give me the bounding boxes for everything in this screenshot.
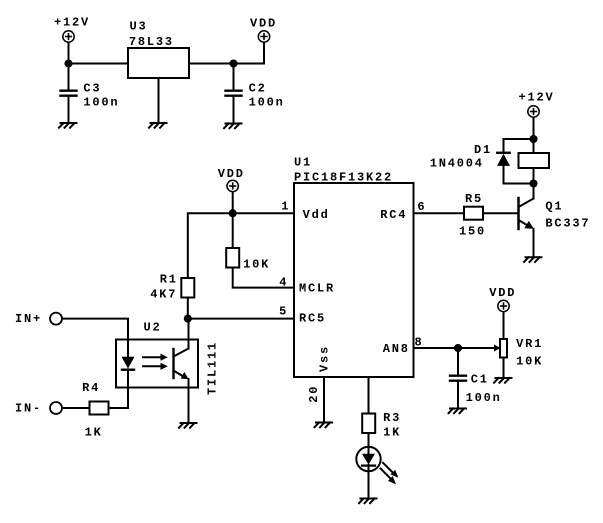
svg-text:VDD: VDD — [218, 167, 245, 181]
svg-text:VDD: VDD — [489, 286, 516, 300]
wire R1 bottom to RC5 junction — [187, 298, 189, 319]
svg-text:10K: 10K — [516, 355, 543, 369]
svg-text:U2: U2 — [144, 321, 162, 335]
wire U1 pin 6 RC4 to R5 — [414, 212, 465, 214]
resistor R1 — [181, 278, 194, 298]
LED indicator — [356, 447, 380, 471]
microcontroller U1 — [294, 183, 414, 377]
node junction R1 / opto collector / RC5 — [184, 315, 192, 323]
svg-text:4K7: 4K7 — [150, 287, 177, 301]
svg-text:+12V: +12V — [54, 15, 90, 29]
wire opto emitter down to ground — [188, 379, 190, 423]
resistor 10K (MCLR pull-up) — [226, 248, 239, 268]
wire VDD junction down to 10K resistor — [232, 213, 234, 248]
svg-text:AN8: AN8 — [383, 342, 410, 356]
ground (below C2) — [224, 124, 242, 129]
wire Q1 emitter down to ground — [533, 229, 535, 257]
wire D1 top branch — [504, 139, 534, 153]
svg-text:C2: C2 — [249, 82, 267, 96]
svg-text:20: 20 — [307, 385, 321, 403]
svg-text:U3: U3 — [130, 20, 148, 34]
ground (below LED) — [359, 499, 377, 504]
LED emission arrow (upper) — [383, 463, 399, 478]
ground (Q1 emitter) — [524, 257, 542, 262]
capacitor C1 — [450, 376, 466, 381]
wire junction to VDD terminal corner — [234, 43, 265, 64]
svg-text:10K: 10K — [243, 258, 270, 272]
VDD terminal (above U1) — [227, 180, 238, 191]
wire U1 pin 20 Vss to ground — [323, 377, 325, 422]
wire relay top to +12V junction — [533, 139, 535, 153]
svg-text:1K: 1K — [85, 425, 103, 439]
wire junction to VR1 wiper arrow — [458, 344, 500, 351]
voltage regulator U3 — [128, 48, 189, 78]
svg-text:VDD: VDD — [250, 17, 277, 31]
ground (VR1 bottom) — [494, 378, 512, 383]
svg-text:R3: R3 — [383, 411, 401, 425]
svg-text:Q1: Q1 — [545, 200, 563, 214]
ground (below U3) — [149, 123, 167, 128]
wire +12V terminal to junction — [68, 43, 70, 64]
svg-text:IN+: IN+ — [15, 312, 42, 326]
svg-text:Vss: Vss — [317, 345, 331, 372]
U2 coupling arrow (upper) — [143, 354, 168, 361]
wire C3 to ground — [68, 97, 70, 123]
VDD terminal (right) — [498, 300, 509, 311]
wire U1 pin 8 AN8 to junction — [414, 347, 459, 349]
node junction AN8 / C1 / VR1 wiper — [454, 344, 462, 352]
wire U1 bottom pin to R3 — [368, 377, 370, 414]
svg-text:100n: 100n — [466, 391, 502, 405]
wire C2 to ground — [233, 97, 235, 124]
node junction +12V rail / C3 — [64, 59, 72, 67]
wire C1 to ground — [457, 382, 459, 409]
ground (below C1) — [449, 409, 467, 414]
ground (Vss pin 20) — [315, 423, 333, 428]
svg-text:1K: 1K — [383, 426, 401, 440]
transistor Q1 — [519, 198, 534, 229]
capacitor C3 — [61, 91, 77, 96]
svg-text:MCLR: MCLR — [299, 282, 335, 296]
svg-text:78L33: 78L33 — [129, 35, 174, 49]
wire R3 to LED — [368, 433, 370, 455]
svg-text:R4: R4 — [82, 381, 100, 395]
svg-text:100n: 100n — [83, 96, 119, 110]
svg-text:PIC18F13K22: PIC18F13K22 — [294, 171, 393, 185]
svg-text:1N4004: 1N4004 — [430, 157, 484, 171]
resistor R4 — [90, 402, 109, 415]
optocoupler U2 — [116, 340, 198, 388]
wire VR1 bottom to ground — [503, 358, 505, 378]
resistor R5 — [464, 207, 483, 220]
wire pin-1 rail (R1 top corner to U1 pin 1) — [188, 213, 294, 278]
wire IN+ to U2 anode — [62, 319, 128, 340]
wire junction down to C3 — [68, 64, 70, 91]
wire LED to ground — [368, 465, 370, 498]
+12V supply terminal (top-left) — [63, 31, 74, 42]
node junction relay top / D1 / +12V — [529, 135, 537, 143]
wire +12V terminal down to junction — [533, 118, 535, 140]
svg-text:RC5: RC5 — [299, 312, 326, 326]
svg-text:IN-: IN- — [15, 402, 42, 416]
wire VDD terminal down to pin-1 rail — [232, 192, 234, 213]
diode D1 — [497, 153, 510, 166]
svg-text:Vdd: Vdd — [303, 208, 330, 222]
wire IN- to R4 — [62, 407, 89, 409]
ground (below C3) — [59, 123, 77, 128]
resistor R3 — [362, 414, 375, 434]
node junction relay bottom / D1 / Q1 collector — [529, 179, 537, 187]
node junction VDD rail / C2 — [229, 59, 237, 67]
wire junction to U1 pin 5 RC5 — [188, 318, 294, 320]
+12V supply terminal (right) — [528, 106, 539, 117]
wire VR1 top to VDD terminal — [503, 312, 505, 339]
potentiometer VR1 — [500, 339, 507, 358]
svg-text:C3: C3 — [83, 81, 101, 95]
wire junction to U3 input — [69, 63, 129, 65]
svg-text:150: 150 — [459, 225, 486, 239]
ground (opto emitter) — [179, 423, 197, 428]
IN+ input terminal — [50, 313, 62, 325]
wire 10K bottom to U1 pin 4 MCLR — [233, 268, 294, 288]
svg-text:100n: 100n — [249, 96, 285, 110]
LED emission arrow (lower) — [381, 469, 397, 485]
svg-text:R5: R5 — [465, 192, 483, 206]
svg-text:R1: R1 — [160, 273, 178, 287]
svg-text:1: 1 — [281, 200, 290, 214]
wire D1 bottom branch — [504, 166, 534, 184]
svg-text:BC337: BC337 — [545, 217, 590, 231]
wire relay bottom to junction — [533, 168, 535, 184]
wire opto collector up to RC5 junction — [188, 319, 190, 349]
svg-text:TIL111: TIL111 — [205, 341, 219, 395]
svg-text:C1: C1 — [471, 373, 489, 387]
svg-text:D1: D1 — [474, 143, 492, 157]
U2 internal phototransistor — [174, 349, 189, 380]
U2 coupling arrow (lower) — [143, 363, 168, 370]
svg-text:RC4: RC4 — [380, 208, 407, 222]
svg-text:VR1: VR1 — [516, 337, 543, 351]
node junction VDD / pin1 rail — [229, 209, 237, 217]
wire U3 output to junction — [189, 63, 234, 65]
wire junction down to C2 — [233, 64, 235, 91]
wire junction down to C1 — [457, 348, 459, 375]
svg-text:U1: U1 — [294, 156, 312, 170]
wire R5 to Q1 base — [483, 212, 518, 214]
relay coil — [519, 153, 550, 168]
wire U3 ground pin — [158, 78, 160, 123]
VDD terminal (top) — [258, 31, 269, 42]
wire R4 to U2 cathode — [109, 388, 129, 409]
svg-text:+12V: +12V — [519, 91, 555, 105]
U2 internal LED — [122, 340, 135, 388]
IN- input terminal — [50, 402, 62, 414]
capacitor C2 — [226, 91, 242, 96]
svg-text:6: 6 — [417, 200, 426, 214]
wire Q1 collector up to relay junction — [533, 184, 535, 199]
svg-text:5: 5 — [279, 304, 288, 318]
